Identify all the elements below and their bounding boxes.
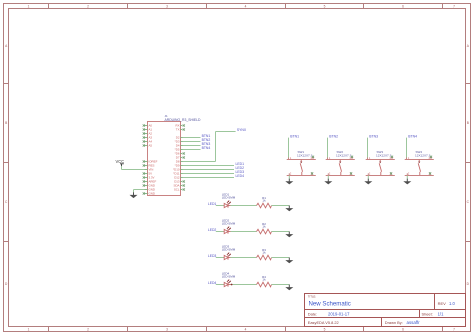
ground (SW3) — [367, 179, 369, 182]
svg-text:BTN4: BTN4 — [202, 146, 211, 150]
wire LED2 to R2 — [231, 231, 257, 233]
svg-text:New Schematic: New Schematic — [309, 301, 351, 308]
svg-text:3: 3 — [166, 327, 168, 331]
wire D9 to LED1 — [183, 165, 235, 167]
frame row ticks — [4, 83, 9, 85]
wire R1 to ground — [272, 205, 290, 207]
svg-text:1k: 1k — [262, 278, 266, 282]
svg-text:BTN1: BTN1 — [290, 134, 299, 138]
pin GND (left) — [145, 189, 148, 191]
pin D7 (right) — [181, 157, 183, 159]
wire R2 to ground — [272, 231, 290, 233]
wire D8 to SYNX — [183, 161, 216, 163]
wire label to LED3 — [216, 257, 224, 259]
pin D12 (right) — [181, 177, 183, 179]
svg-text:SYNX: SYNX — [237, 128, 247, 132]
wire SW2 to ground — [327, 176, 329, 179]
svg-text:LED3: LED3 — [208, 254, 217, 258]
pin D8 (right) — [181, 161, 183, 163]
svg-text:RX: RX — [175, 124, 179, 128]
svg-text:LED2: LED2 — [208, 228, 217, 232]
svg-text:GND: GND — [149, 188, 155, 192]
pin GND (left) — [145, 185, 148, 187]
svg-text:5V: 5V — [149, 172, 153, 176]
svg-text:4: 4 — [245, 5, 247, 9]
wire D11 to LED3 — [183, 173, 235, 175]
svg-text:1: 1 — [28, 327, 30, 331]
pin A3 (left) — [145, 137, 148, 139]
pin RX (right) — [181, 125, 183, 127]
svg-text:B: B — [5, 121, 7, 125]
pin VIN (left) — [145, 169, 148, 171]
pin *D11 (right) — [181, 173, 183, 175]
pin A1 (left) — [145, 129, 148, 131]
svg-text:SDA: SDA — [174, 184, 180, 188]
svg-text:LED4: LED4 — [236, 174, 245, 178]
svg-text:A5: A5 — [149, 144, 153, 148]
svg-text:D4: D4 — [176, 144, 180, 148]
svg-text:7: 7 — [453, 327, 455, 331]
svg-text:LED2: LED2 — [236, 166, 245, 170]
svg-text:B: B — [467, 121, 469, 125]
pin *D3 (right) — [181, 141, 183, 143]
svg-text:BTN2: BTN2 — [329, 134, 338, 138]
pin D13 (right) — [181, 181, 183, 183]
svg-text:GND: GND — [149, 184, 155, 188]
ground (row 1) — [288, 206, 290, 209]
title block — [305, 294, 466, 327]
wire R4 to ground — [272, 284, 290, 286]
svg-text:D2: D2 — [176, 136, 180, 140]
component J1 ARDUINO_R3_SHIELD body — [148, 122, 181, 196]
wire D4 to BTN3 — [183, 145, 201, 147]
svg-text:BTN4: BTN4 — [408, 134, 417, 138]
svg-text:1k: 1k — [262, 199, 266, 203]
svg-text:REV: REV — [438, 301, 447, 306]
pin *D5 (right) — [181, 149, 183, 151]
pin D4 (right) — [181, 145, 183, 147]
wire label to LED1 — [216, 205, 224, 207]
wire BTN1 to SW1 — [288, 138, 290, 158]
svg-text:1k: 1k — [262, 225, 266, 229]
svg-text:LED1: LED1 — [208, 202, 217, 206]
wire SW3 to ground — [367, 176, 369, 179]
svg-text:1k: 1k — [262, 251, 266, 255]
svg-text:A3: A3 — [149, 136, 153, 140]
svg-text:5: 5 — [324, 5, 326, 9]
ground (SW2) — [327, 179, 329, 182]
pin 5V (left) — [145, 173, 148, 175]
svg-text:1.0: 1.0 — [449, 301, 455, 306]
wire D2 to BTN1 — [183, 137, 201, 139]
svg-text:*D3: *D3 — [175, 140, 180, 144]
svg-text:1: 1 — [28, 5, 30, 9]
svg-text:D8: D8 — [176, 160, 180, 164]
svg-text:ARDUINO_R3_SHIELD: ARDUINO_R3_SHIELD — [165, 118, 202, 122]
svg-text:*D5: *D5 — [175, 148, 180, 152]
svg-text:LED-5MM: LED-5MM — [222, 248, 236, 252]
svg-text:6: 6 — [402, 327, 404, 331]
junction dot row 4 — [231, 284, 233, 286]
wire BTN3 to SW3 — [367, 138, 369, 158]
svg-text:D13: D13 — [174, 180, 180, 184]
wire VCC to VIN — [121, 166, 123, 169]
pin *D6 (right) — [181, 153, 183, 155]
svg-text:LED1: LED1 — [236, 162, 245, 166]
svg-text:LED-5MM: LED-5MM — [222, 275, 236, 279]
wire label to LED4 — [216, 284, 224, 286]
svg-text:6: 6 — [402, 5, 404, 9]
svg-text:Drawn By:: Drawn By: — [385, 320, 403, 325]
pin A4 (left) — [145, 141, 148, 143]
svg-text:TX: TX — [176, 128, 180, 132]
svg-text:Sheet:: Sheet: — [422, 312, 433, 317]
wire BTN4 to SW4 — [406, 138, 408, 158]
wire D12 to LED4 — [183, 177, 235, 179]
wire SW4 to ground — [406, 176, 408, 179]
svg-text:*D6: *D6 — [175, 152, 180, 156]
svg-text:EasyEDA V5.8.22: EasyEDA V5.8.22 — [308, 320, 339, 325]
svg-text:SCL: SCL — [174, 188, 180, 192]
pin SDA (right) — [181, 185, 183, 187]
ground (Arduino) — [133, 192, 135, 195]
svg-text:3: 3 — [166, 5, 168, 9]
ground (SW4) — [406, 179, 408, 182]
svg-text:2019-01-17: 2019-01-17 — [328, 312, 350, 317]
pin *D10 (right) — [181, 169, 183, 171]
pin AREF (left) — [145, 181, 148, 183]
wire label to LED2 — [216, 231, 224, 233]
svg-text:A1: A1 — [149, 128, 153, 132]
pin 3.3V (left) — [145, 177, 148, 179]
svg-text:BTN1: BTN1 — [202, 134, 211, 138]
wire LED4 to R4 — [231, 284, 257, 286]
wire D3 to BTN2 — [183, 141, 201, 143]
wire BTN2 to SW2 — [327, 138, 329, 158]
svg-text:LED-5MM: LED-5MM — [222, 222, 236, 226]
pin *D9 (right) — [181, 165, 183, 167]
svg-text:assaffr: assaffr — [407, 320, 421, 325]
ground (row 2) — [288, 232, 290, 235]
svg-text:7: 7 — [453, 5, 455, 9]
svg-text:*D9: *D9 — [175, 164, 180, 168]
svg-text:VIN: VIN — [149, 168, 154, 172]
svg-text:D12: D12 — [174, 176, 180, 180]
svg-text:BTN3: BTN3 — [369, 134, 378, 138]
pin GND (left) — [145, 193, 148, 195]
pin IOREF (left) — [145, 161, 148, 163]
svg-text:VCC: VCC — [115, 159, 124, 164]
svg-text:TITLE:: TITLE: — [308, 295, 317, 299]
svg-text:A2: A2 — [149, 132, 153, 136]
pin A2 (left) — [145, 133, 148, 135]
svg-text:5: 5 — [324, 327, 326, 331]
svg-text:LED3: LED3 — [236, 170, 245, 174]
ground (row 3) — [288, 258, 290, 261]
svg-text:A0: A0 — [149, 124, 153, 128]
ground (SW1) — [288, 179, 290, 182]
ground (row 4) — [288, 285, 290, 288]
svg-text:2: 2 — [87, 5, 89, 9]
svg-text:RES: RES — [149, 164, 155, 168]
svg-text:LED-5MM: LED-5MM — [222, 196, 236, 200]
svg-text:*D10: *D10 — [173, 168, 180, 172]
svg-text:IOREF: IOREF — [149, 160, 158, 164]
svg-text:BTN3: BTN3 — [202, 142, 211, 146]
wire LED3 to R3 — [231, 257, 257, 259]
pin TX (right) — [181, 129, 183, 131]
pin A5 (left) — [145, 145, 148, 147]
pin D2 (right) — [181, 137, 183, 139]
pin SCL (right) — [181, 189, 183, 191]
wire LED1 to R1 — [231, 205, 257, 207]
wire R3 to ground — [272, 257, 290, 259]
svg-text:LED4: LED4 — [208, 281, 217, 285]
pin RES (left) — [145, 165, 148, 167]
svg-text:2: 2 — [87, 327, 89, 331]
wire D5 to BTN4 — [183, 149, 201, 151]
svg-text:A4: A4 — [149, 140, 153, 144]
svg-text:Date:: Date: — [308, 312, 317, 317]
wire GND pin to ground — [134, 189, 145, 191]
svg-text:4: 4 — [245, 327, 247, 331]
svg-text:1/1: 1/1 — [438, 312, 444, 317]
svg-text:*D11: *D11 — [173, 172, 180, 176]
svg-text:AREF: AREF — [149, 180, 157, 184]
wire D10 to LED2 — [183, 169, 235, 171]
wire SW1 to ground — [288, 176, 290, 179]
frame column ticks — [48, 4, 50, 9]
svg-text:GND: GND — [149, 192, 155, 196]
svg-text:BTN2: BTN2 — [202, 138, 211, 142]
pin A0 (left) — [145, 125, 148, 127]
svg-text:3.3V: 3.3V — [149, 176, 155, 180]
svg-text:D7: D7 — [176, 156, 180, 160]
